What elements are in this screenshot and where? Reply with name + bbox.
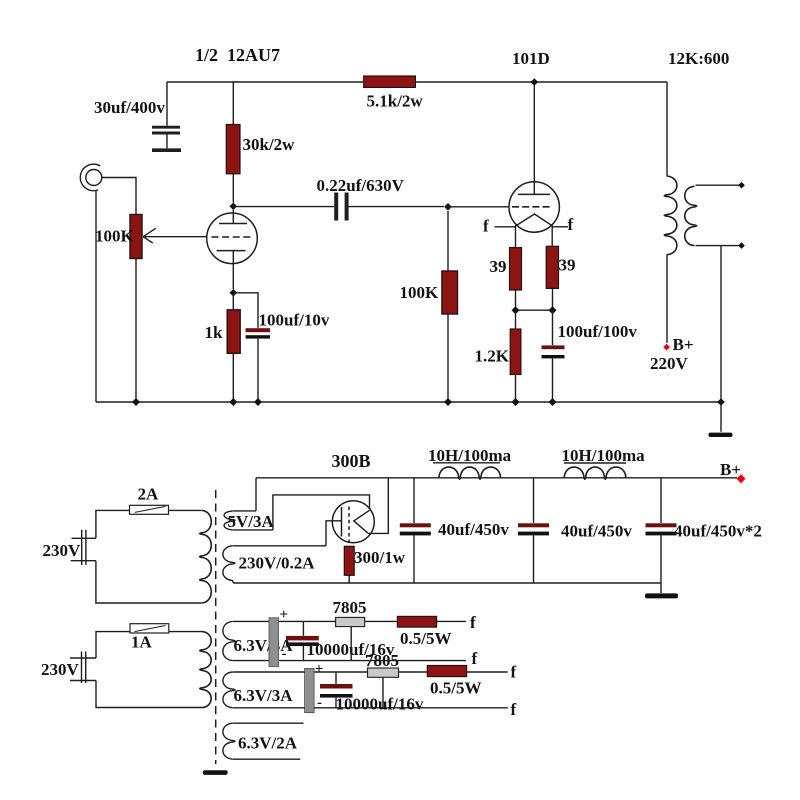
transformer T1 secondary winding — [685, 185, 739, 245]
svg-text:1.2K: 1.2K — [475, 347, 510, 366]
regulator U1 7805 first — [336, 617, 365, 660]
node cathode junction of V1 — [230, 289, 238, 297]
svg-text:101D: 101D — [512, 49, 550, 68]
wire cathode bus between 39s — [516, 309, 553, 311]
svg-text:300/1w: 300/1w — [354, 548, 406, 567]
net label B+ PSU — [720, 460, 741, 479]
svg-text:B+: B+ — [720, 460, 741, 479]
node B+ 220V red terminal — [663, 344, 670, 351]
node plate junction of V1 — [230, 203, 238, 211]
value label 40uf/450v*2 — [674, 522, 762, 541]
label tube V1 1/2 12AU7 — [195, 45, 280, 65]
potentiometer VR1 100K — [130, 215, 207, 403]
value label 300/1w — [354, 548, 406, 567]
resistor R5 39 left — [510, 248, 522, 311]
svg-text:39: 39 — [490, 257, 507, 276]
value label 2A — [138, 485, 160, 504]
svg-text:1A: 1A — [131, 633, 153, 652]
pin label f B2 — [511, 700, 517, 719]
polarity label plus B — [315, 662, 324, 678]
svg-text:0.22uf/630V: 0.22uf/630V — [317, 176, 405, 195]
node junction right 39 bottom — [549, 306, 557, 314]
svg-text:100K: 100K — [400, 283, 440, 302]
part label 7805 second — [365, 651, 399, 670]
value label 0.5/5W second — [430, 679, 481, 698]
svg-text:f: f — [511, 663, 517, 682]
value label 0.5/5W first — [400, 629, 451, 648]
svg-text:f: f — [472, 649, 478, 668]
value label 10H/100ma choke2 — [562, 446, 646, 465]
inductor L2 choke 10H/100ma — [564, 463, 626, 479]
source AC mains 1 plug — [71, 530, 96, 565]
resistor R4 1k cathode — [227, 293, 240, 402]
svg-text:7805: 7805 — [365, 651, 399, 670]
connector J1 RCA input jack — [80, 164, 136, 402]
svg-text:7805: 7805 — [333, 598, 367, 617]
net label 220V — [650, 354, 689, 373]
value label 5V/3A — [228, 512, 275, 531]
node rail junction 100uf/10v — [254, 398, 262, 406]
svg-text:f: f — [470, 613, 476, 632]
net label 230V lower — [41, 660, 80, 679]
wire AC1 loop — [96, 510, 202, 603]
source AC mains 2 plug — [70, 652, 96, 684]
svg-text:0.5/5W: 0.5/5W — [430, 679, 481, 698]
fuse F1 2A — [130, 505, 169, 514]
node junction left 39 bottom — [512, 306, 520, 314]
value label 100K pot — [95, 227, 135, 246]
fuse F2 1A — [130, 624, 169, 633]
inductor L1 choke 10H/100ma — [433, 463, 501, 479]
wire coupling from V1 plate to C3 — [233, 206, 334, 208]
capacitor C6 40uf/450v second — [518, 478, 549, 583]
transformer T2 secondary 6.3V/2A — [223, 723, 304, 759]
wire 5V top lead to B+ rail — [255, 478, 257, 511]
svg-text:40uf/450v: 40uf/450v — [561, 522, 632, 541]
svg-text:40uf/450v*2: 40uf/450v*2 — [674, 522, 762, 541]
value label 39 right — [559, 256, 576, 275]
resistor R10 0.5/5W second — [427, 666, 466, 677]
value label 30uf/400v — [94, 98, 165, 117]
capacitor C3 0.22uf/630V — [336, 193, 444, 221]
svg-text:B+: B+ — [673, 335, 694, 354]
pin label f left — [483, 217, 489, 236]
svg-text:39: 39 — [559, 256, 576, 275]
node rail junction 100uf/100v — [549, 398, 557, 406]
capacitor C7 40uf/450v*2 — [646, 478, 677, 583]
value label 10H/100ma choke1 — [428, 446, 512, 465]
transformer T2 secondary 230V/0.2A winding — [223, 546, 326, 583]
capacitor C8 plates — [286, 621, 319, 660]
transformer T2 primary 1 — [200, 510, 212, 603]
value label 6.3V/3A first — [234, 636, 294, 655]
svg-text:+: + — [315, 662, 324, 678]
svg-text:12K:600: 12K:600 — [668, 49, 729, 68]
regulator U2 7805 second — [368, 668, 399, 708]
svg-text:5.1k/2w: 5.1k/2w — [367, 92, 424, 111]
ground symbol top circuit — [709, 402, 733, 437]
value label 6.3V/2A — [238, 734, 298, 753]
node rail junction transformer tap — [717, 398, 725, 406]
node plate rail junction of V2 — [531, 78, 539, 86]
value label 1.2K — [475, 347, 510, 366]
transformer T2 primary 2 — [200, 632, 211, 708]
capacitor C9 plates — [320, 672, 353, 708]
node secondary terminal bottom — [738, 242, 745, 249]
transformer T1 primary winding — [664, 82, 677, 343]
svg-text:220V: 220V — [650, 354, 689, 373]
polarity label minus A — [282, 646, 287, 662]
value label 10000uf/16v second — [336, 695, 424, 714]
capacitor C2 100uf/10v — [233, 293, 270, 402]
svg-text:-: - — [282, 646, 287, 662]
svg-text:10H/100ma: 10H/100ma — [562, 446, 646, 465]
polarity label minus B — [317, 695, 322, 711]
value label 1A — [131, 633, 153, 652]
transformer T2 secondary 6.3V/3A first — [223, 621, 466, 660]
label tube V3 300B — [332, 451, 371, 471]
resistor R6 39 right — [546, 246, 558, 310]
svg-text:100K: 100K — [95, 227, 135, 246]
value label 0.22uf/630V — [317, 176, 405, 195]
svg-text:10H/100ma: 10H/100ma — [428, 446, 512, 465]
node grid junction of V2 — [444, 203, 452, 211]
svg-text:1k: 1k — [205, 323, 224, 342]
net label B+ top — [673, 335, 694, 354]
TOP-SECTION — [41, 446, 762, 775]
svg-text:30k/2w: 30k/2w — [243, 135, 296, 154]
node rail junction 1.2K — [512, 398, 520, 406]
resistor R9 0.5/5W first — [397, 616, 436, 627]
svg-text:+: + — [280, 607, 289, 623]
svg-text:300B: 300B — [332, 451, 371, 471]
svg-text:0.5/5W: 0.5/5W — [400, 629, 451, 648]
svg-text:5V/3A: 5V/3A — [228, 512, 275, 531]
wire top B+ rail y=82 — [167, 81, 667, 83]
svg-text:100uf/10v: 100uf/10v — [259, 311, 330, 330]
wire 5V bottom lead to filament — [273, 495, 370, 530]
value label 230V/0.2A — [239, 554, 316, 573]
value label 100uf/100v — [558, 322, 638, 341]
wire PSU bottom rail — [234, 582, 661, 584]
label transformer T1 12K:600 — [668, 49, 729, 68]
svg-text:f: f — [483, 217, 489, 236]
net label 230V upper — [43, 541, 82, 560]
wire secondary tap to ground rail — [720, 246, 722, 402]
polarity label plus A — [280, 607, 289, 623]
wire junction to V2 grid — [448, 206, 509, 208]
svg-text:2A: 2A — [138, 485, 160, 504]
capacitor C8 10000uf/16v bar — [269, 618, 279, 667]
value label 39 left — [490, 257, 507, 276]
pin label f B1 — [511, 663, 517, 682]
svg-text:100uf/100v: 100uf/100v — [558, 322, 638, 341]
op-amp: none; tube V1 12AU7 triode — [207, 210, 258, 289]
svg-text:f: f — [568, 215, 574, 234]
transformer T2 secondary 6.3V/3A second — [223, 672, 508, 708]
capacitor C9 10000uf/16v bar — [305, 668, 315, 712]
capacitor C5 40uf/450v first — [400, 478, 431, 583]
svg-text:6.3V/3A: 6.3V/3A — [234, 686, 294, 705]
tube V2 101D triode — [509, 82, 559, 248]
node rail junction 1k — [229, 398, 237, 406]
resistor R1 30k/2w — [226, 82, 240, 203]
value label 10000uf/16v first — [307, 640, 395, 659]
pin label f A2 — [472, 649, 478, 668]
svg-text:230V: 230V — [41, 660, 80, 679]
svg-text:10000uf/16v: 10000uf/16v — [336, 695, 424, 714]
node rail junction 100K — [444, 398, 452, 406]
label tube V2 101D — [512, 49, 550, 68]
wire AC2 loop — [96, 632, 202, 708]
ground symbol PSU rail — [645, 583, 678, 598]
value label 40uf/450v first — [438, 520, 509, 539]
wire filament f left — [495, 226, 516, 228]
value label 100K — [400, 283, 440, 302]
ground symbol transformer core — [203, 770, 228, 775]
node rail junction pot — [132, 398, 140, 406]
node B+ PSU red terminal — [737, 474, 746, 483]
value label 30k/2w — [243, 135, 296, 154]
resistor R7 1.2K — [510, 310, 521, 402]
resistor R8 300/1w — [344, 546, 354, 583]
svg-text:230V/0.2A: 230V/0.2A — [239, 554, 316, 573]
value label 1k — [205, 323, 224, 342]
svg-text:30uf/400v: 30uf/400v — [94, 98, 165, 117]
wire bottom ground rail — [96, 401, 721, 403]
value label 40uf/450v second — [561, 522, 632, 541]
pin label f A1 — [470, 613, 476, 632]
svg-text:1/2 12AU7: 1/2 12AU7 — [195, 45, 280, 65]
value label 6.3V/3A second — [234, 686, 294, 705]
value label 100uf/10v — [259, 311, 330, 330]
resistor R2 5.1k/2w — [364, 76, 416, 87]
transformer T2 secondary 5V/3A winding — [224, 511, 273, 530]
resistor R3 100K grid leak — [442, 211, 458, 402]
value label 5.1k/2w — [367, 92, 424, 111]
svg-text:6.3V/2A: 6.3V/2A — [238, 734, 298, 753]
wire B+ filament rail — [256, 477, 737, 479]
svg-text:230V: 230V — [43, 541, 82, 560]
node secondary terminal top — [738, 182, 745, 189]
svg-text:40uf/450v: 40uf/450v — [438, 520, 509, 539]
capacitor C4 100uf/100v — [542, 310, 565, 402]
part label 7805 first — [333, 598, 367, 617]
transformer T2 core dashed — [215, 490, 217, 764]
wire filament f right — [552, 226, 568, 228]
svg-text:f: f — [511, 700, 517, 719]
tube V3 300B rectifier — [326, 478, 388, 546]
capacitor C1 30uf/400v — [152, 82, 181, 150]
pin label f right — [568, 215, 574, 234]
